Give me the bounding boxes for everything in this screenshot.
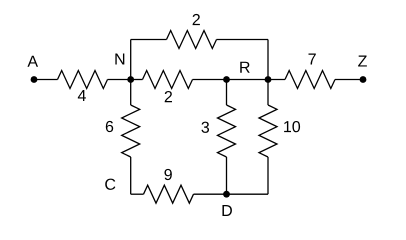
node R junction dot — [265, 76, 272, 83]
wire N to resistor 2 (middle) — [131, 79, 143, 81]
node Z terminal dot — [360, 76, 367, 83]
node A terminal dot — [31, 76, 38, 83]
value label 4 (resistor 4) — [78, 90, 86, 101]
resistor 10 — [259, 105, 277, 157]
resistor 6 — [122, 105, 140, 157]
wire resistor 9 to node D — [194, 193, 227, 195]
wire node D to right corner — [227, 193, 269, 195]
value label 3 (resistor 3) — [201, 122, 209, 133]
wire N down to resistor 6 — [130, 80, 132, 106]
resistor 3 — [218, 105, 236, 157]
wire right corner up to resistor 10 — [267, 157, 269, 194]
label node Z — [358, 56, 367, 67]
wire resistor 6 down to corner C — [130, 157, 132, 194]
value label 2 (middle resistor) — [165, 91, 172, 102]
wire junction to node R — [227, 79, 269, 81]
resistor 7 — [285, 71, 335, 89]
resistor 2 (middle) — [143, 71, 193, 89]
junction dot left of R — [223, 76, 230, 83]
label node C — [105, 179, 115, 190]
wire A to resistor 4 — [34, 79, 58, 81]
resistor 4 — [58, 71, 108, 89]
wire node R to resistor 7 — [268, 79, 285, 81]
node D junction dot — [223, 191, 230, 198]
value label 7 (resistor 7) — [309, 54, 316, 65]
node N junction dot — [127, 76, 134, 83]
wire top branch down to node R — [267, 40, 269, 80]
label node N — [115, 54, 124, 65]
value label 10 (resistor 10) — [284, 121, 300, 132]
wire resistor 3 down to node D — [226, 157, 228, 194]
wire N up to top branch — [130, 40, 132, 80]
wire top branch left — [131, 39, 167, 41]
label node D — [222, 205, 231, 216]
label node R — [240, 62, 250, 73]
label node A — [27, 56, 38, 67]
wire corner C to resistor 9 — [131, 193, 144, 195]
wire resistor 4 to node N — [108, 79, 131, 81]
wire resistor 2 to junction — [193, 79, 227, 81]
resistor 2 (top) — [167, 31, 217, 49]
wire resistor 7 to node Z — [335, 79, 363, 81]
resistor 9 — [144, 185, 194, 203]
wire resistor 10 up to node R — [267, 80, 269, 106]
value label 2 (top resistor) — [193, 14, 200, 25]
wire top branch right — [217, 39, 269, 41]
value label 9 (resistor 9) — [164, 169, 171, 180]
wire junction down to resistor 3 — [226, 80, 228, 106]
value label 6 (resistor 6) — [106, 121, 113, 132]
